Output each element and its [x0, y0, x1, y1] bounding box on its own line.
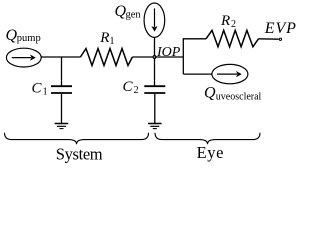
svg-text:Q: Q [6, 27, 18, 44]
label C1 [32, 81, 48, 98]
wire C2 to ground [154, 94, 156, 123]
svg-text:R: R [99, 30, 109, 46]
svg-text:C: C [32, 81, 43, 97]
brace Eye [155, 133, 260, 144]
label Q_pump [6, 27, 41, 44]
ground (C2) [148, 124, 162, 129]
svg-text:R: R [220, 13, 230, 29]
ground (C1) [55, 124, 69, 129]
svg-text:1: 1 [110, 36, 115, 47]
svg-text:IOP: IOP [156, 45, 181, 60]
svg-text:Q: Q [204, 85, 216, 102]
wire C1 to ground [61, 94, 63, 123]
label Q_gen [115, 3, 142, 21]
wire R2 left lead [183, 38, 206, 40]
capacitor C1 [51, 86, 72, 93]
wire right bus vertical [182, 39, 184, 74]
wire R1 to node IOP [132, 56, 154, 58]
current source Q_gen (ellipse with down arrow) [144, 3, 165, 37]
wire Q_gen stem through node down to C2 [154, 38, 156, 86]
label R2 [220, 13, 236, 30]
label R1 [99, 30, 114, 47]
terminal EVP (open circle) [279, 38, 281, 40]
capacitor C2 [144, 86, 165, 93]
wire R2 right lead [259, 38, 279, 40]
current source Q_uveoscleral (ellipse with right arrow) [212, 64, 248, 83]
wire bus to Q_uveoscleral [183, 73, 212, 75]
svg-text:uveoscleral: uveoscleral [216, 92, 262, 103]
wire node to right bus [155, 56, 184, 58]
svg-text:gen: gen [126, 10, 142, 21]
current source Q_pump (ellipse with right arrow) [6, 48, 41, 67]
wire junction down to C1 [61, 57, 63, 86]
svg-text:EVP: EVP [264, 20, 297, 37]
label C2 [123, 79, 139, 96]
svg-text:2: 2 [134, 85, 139, 96]
svg-text:pump: pump [17, 33, 41, 44]
svg-text:C: C [123, 79, 134, 95]
svg-text:1: 1 [43, 87, 48, 98]
node IOP (open circle) [153, 56, 156, 59]
brace System [5, 133, 149, 144]
wire Q_pump to R1 [41, 56, 81, 58]
svg-text:System: System [56, 145, 103, 164]
resistor R1 [80, 49, 132, 66]
svg-text:2: 2 [231, 19, 236, 30]
resistor R2 [206, 30, 259, 46]
svg-text:Eye: Eye [197, 143, 224, 162]
label Q_uveoscleral [204, 85, 262, 103]
